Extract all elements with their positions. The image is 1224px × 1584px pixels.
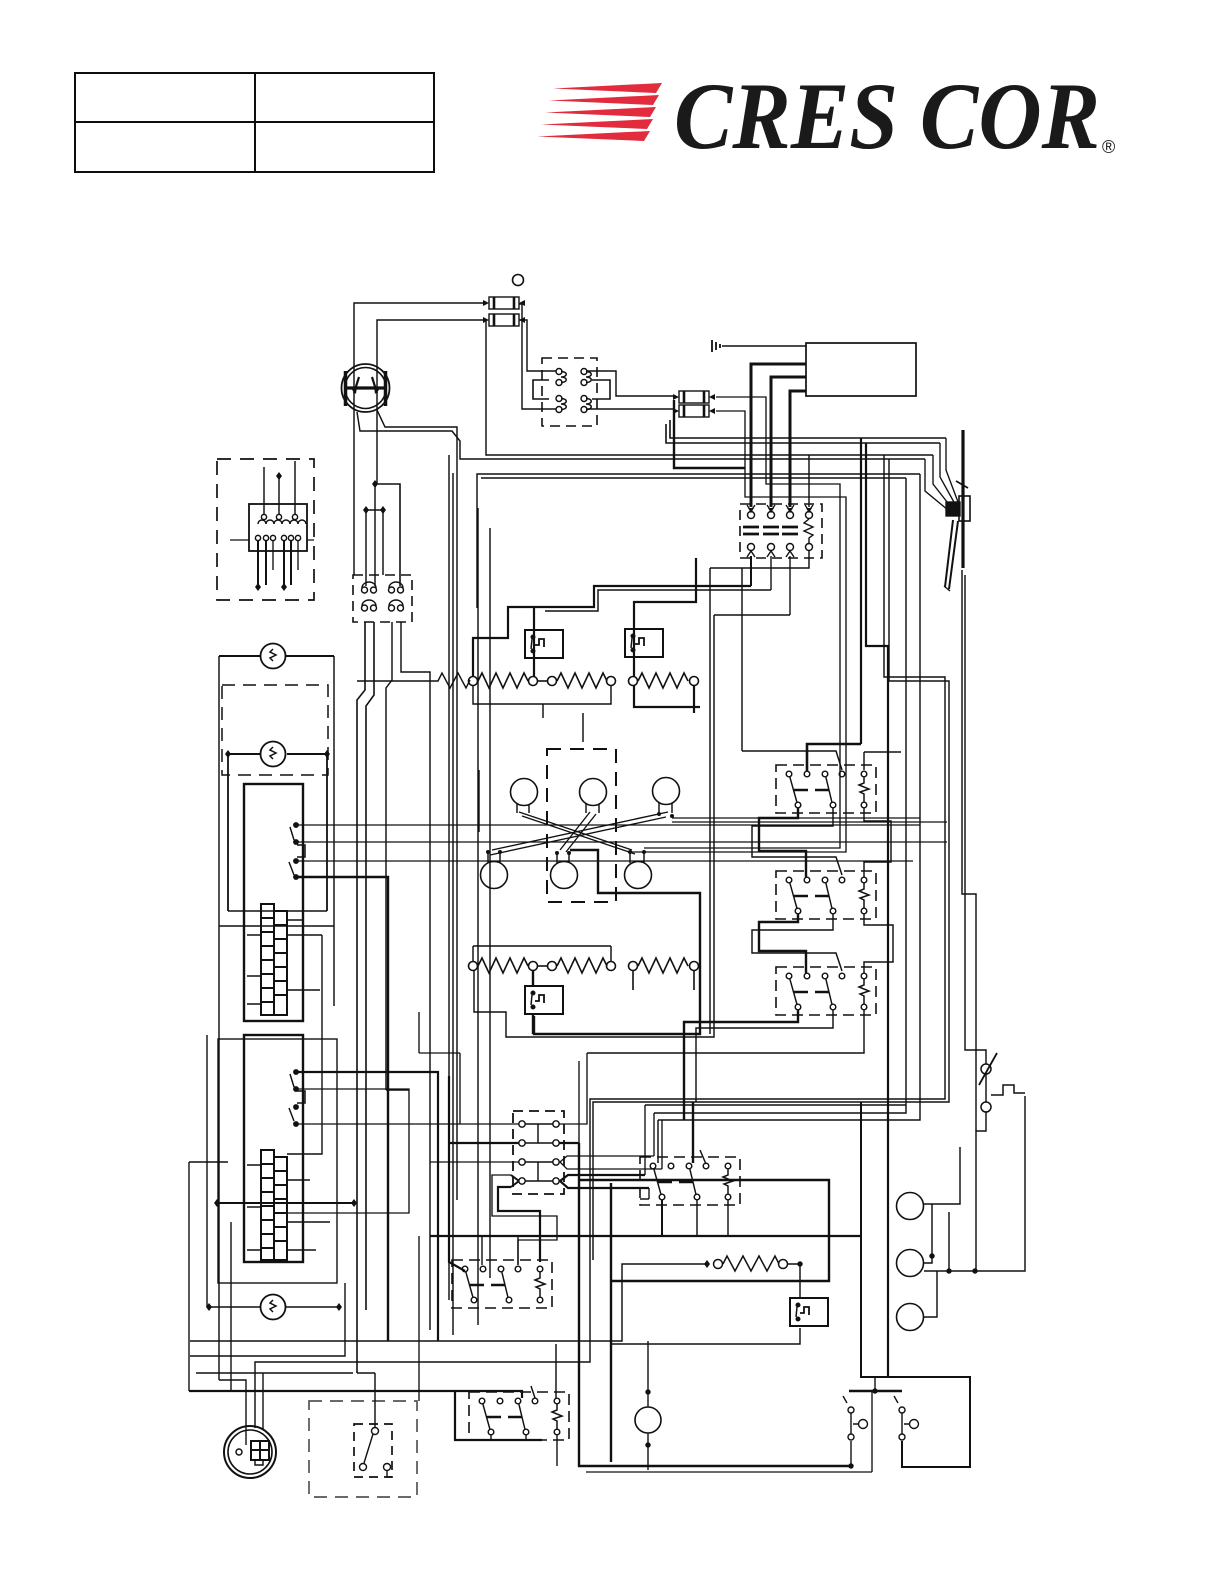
svg-text:CRES COR: CRES COR <box>674 63 1100 169</box>
svg-text:®: ® <box>1102 137 1115 157</box>
